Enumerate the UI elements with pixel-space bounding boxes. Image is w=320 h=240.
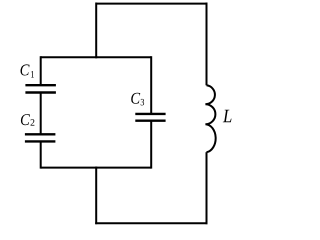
wire inner right edge lower (C3 to bottom edge) (150, 121, 152, 169)
wire outer bottom edge (95, 222, 207, 224)
label C3 (131, 93, 144, 106)
label C1 (21, 64, 34, 77)
inductor L (205, 85, 215, 152)
junction node: outer-left wire meets inner bottom edge (95, 167, 97, 169)
wire inner left edge lower (C2 to bottom edge) (40, 141, 42, 168)
wire inner bottom edge (41, 167, 152, 169)
label L (223, 110, 232, 122)
wire outer left upper segment (95, 3, 97, 59)
wire right edge top (to inductor) (206, 3, 208, 86)
label C2 (21, 114, 35, 125)
wire inner right edge upper (top edge to C3) (150, 56, 152, 114)
capacitor C1 (25, 85, 56, 92)
wire inner top edge (41, 56, 152, 58)
wire outer left lower segment (95, 167, 97, 225)
wire between C1 and C2 (40, 93, 42, 135)
wire right edge bottom (inductor to bottom corner) (206, 152, 208, 224)
junction node: outer-left wire meets inner top edge (95, 56, 97, 58)
wire inner left edge upper (top edge to C1) (40, 56, 42, 85)
capacitor C2 (25, 134, 56, 141)
wire outer top edge (96, 3, 206, 5)
capacitor C3 (135, 114, 165, 121)
